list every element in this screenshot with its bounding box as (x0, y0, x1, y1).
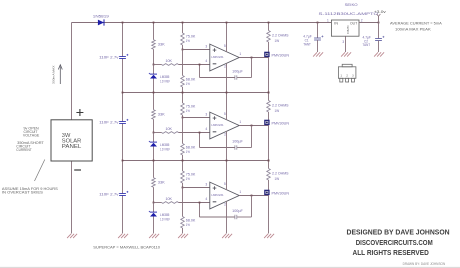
label GND (rotated) (346, 25, 350, 35)
pin 3 label U1 (205, 44, 207, 48)
node divider midpoint (182, 187, 184, 189)
resistor R33-1 33K (152, 40, 156, 50)
resistor R75-2 75.0K 1% (181, 103, 185, 115)
label 110F 2.7v (C5) (99, 192, 119, 196)
label 2.2 OHMS 1W (stage 1) (272, 34, 289, 43)
svg-text:VOLTAGE: VOLTAGE (23, 134, 40, 138)
svg-text:S-1112B30UC-AMPTO: S-1112B30UC-AMPTO (319, 12, 379, 16)
svg-text:33K: 33K (158, 42, 166, 46)
footer DESIGNED BY DAVE JOHNSON (347, 230, 450, 237)
wire 75K to +node (182, 183, 184, 188)
node mosfet column rail 1 (268, 92, 270, 94)
svg-text:1%: 1% (186, 177, 190, 181)
node 33K/10K/LM385 junction (153, 202, 155, 204)
wire 33K to node (153, 119, 155, 132)
svg-text:GND: GND (346, 25, 350, 35)
wire feedback up (199, 203, 201, 218)
wire 2.2ohm to mosfet (268, 112, 270, 126)
wire op-amp output (239, 195, 268, 197)
svg-text:100mA MAX PEAK: 100mA MAX PEAK (395, 28, 432, 32)
pin 5 label U1 (224, 44, 226, 48)
resistor R10-1 10K (162, 64, 179, 66)
svg-text:100µF: 100µF (232, 70, 243, 74)
node divider midpoint (182, 117, 184, 119)
svg-text:2: 2 (361, 18, 363, 22)
op-amp U1 LMP2231 triangle (210, 44, 239, 71)
node +3.0v tap (378, 22, 380, 24)
resistor R75-1 75.0K 1% (181, 33, 185, 45)
wire top supply rail (72, 22, 332, 24)
svg-text:TANT: TANT (363, 43, 371, 47)
svg-text:300mA MAX: 300mA MAX (51, 66, 55, 85)
wire +node to 68K (182, 118, 184, 144)
wire mosfet source down (268, 58, 270, 93)
svg-text:75.0K: 75.0K (186, 105, 196, 109)
svg-text:SUPERCAP = MAXWELL BCAP0110: SUPERCAP = MAXWELL BCAP0110 (93, 246, 160, 250)
svg-text:IN OVERCAST SKIES: IN OVERCAST SKIES (2, 191, 44, 195)
node output feedback tap (251, 195, 253, 197)
ground supercap rail (118, 234, 128, 238)
node feedback to -input (199, 202, 201, 204)
pin 3 label U2 (205, 112, 207, 116)
wire 75K to +node (182, 115, 184, 118)
resistor R22-3 2.2 OHMS 1W (267, 169, 271, 181)
wire feedback down (251, 126, 253, 148)
wire 68K bottom (182, 155, 184, 161)
wire node to LM385 (153, 203, 155, 213)
wire 2.2ohm to mosfet (268, 180, 270, 196)
svg-text:5: 5 (224, 182, 226, 186)
solar panel - terminal mark (74, 169, 81, 171)
op-amp U3 LMP2231 triangle (210, 182, 239, 209)
wire +node to 68K (182, 188, 184, 217)
wire 2.2ohm to mosfet (268, 42, 270, 58)
pin 2 label U3 (224, 203, 226, 207)
label 75.0K 1% (stage 3) (186, 173, 196, 182)
annotation average current (390, 21, 443, 31)
wire 10K to -input (179, 132, 210, 134)
footer DRAWN BY DAVE JOHNSON (403, 262, 446, 266)
pin 3 label VR1 (342, 40, 344, 44)
svg-text:2: 2 (224, 203, 226, 207)
label 75.0K 1% (stage 1) (186, 35, 196, 44)
svg-text:LM385: LM385 (160, 75, 169, 79)
svg-text:10K: 10K (166, 197, 173, 201)
label LM385 1.2V REF (stage 2) (160, 143, 170, 152)
svg-text:4: 4 (205, 197, 207, 201)
diode U1 LM385 1.2V REF (149, 73, 157, 79)
wire 2.2ohm top (268, 93, 270, 101)
ground op-amp U3 pin2 (222, 234, 232, 238)
footer DISCOVERCIRCUITS.COM (356, 240, 433, 247)
wire C1 to ground (317, 40, 319, 52)
svg-text:10K: 10K (166, 127, 173, 131)
pin 5 label U2 (224, 112, 226, 116)
svg-text:DISCOVERCIRCUITS.COM: DISCOVERCIRCUITS.COM (356, 240, 433, 247)
wire 33K R2a top (153, 93, 155, 110)
wire node to LM385 (153, 65, 155, 75)
diode U2 LM385 1.2V REF (149, 141, 157, 147)
junction dots on mid rail 2 (122, 160, 270, 162)
voltage regulator VR1 box (331, 20, 359, 36)
wire VR1 output (359, 22, 379, 24)
svg-text:110F 2.7v: 110F 2.7v (99, 192, 119, 196)
label 10K (stage 1) (166, 59, 173, 63)
svg-text:1W: 1W (275, 177, 280, 181)
footer ALL RIGHTS RESERVED (353, 250, 429, 257)
svg-text:3: 3 (205, 44, 207, 48)
wire C1 lead (317, 23, 319, 39)
label 300mA MAX (rotated) (51, 66, 55, 85)
svg-text:PANEL: PANEL (62, 144, 82, 150)
svg-text:4: 4 (205, 59, 207, 63)
wire mosfet source down (268, 196, 270, 234)
svg-text:3: 3 (352, 74, 354, 78)
label 2.2 OHMS 1W (stage 2) (272, 104, 289, 113)
solar panel label 3W SOLAR PANEL (62, 133, 82, 150)
wire 2.2ohm top (268, 161, 270, 169)
svg-text:OUT: OUT (350, 21, 357, 25)
wire 75K top (182, 93, 184, 104)
wire LM385 to lower rail (153, 79, 155, 93)
node feedback to -input (199, 64, 201, 66)
wire op-amp +input (183, 49, 210, 51)
capacitor C10-2 100µF (235, 145, 237, 149)
label S-1112B30UC-AMPTO (319, 12, 379, 16)
resistor R68-3 68.0K 1% (181, 217, 185, 229)
svg-text:68.0K: 68.0K (186, 219, 196, 223)
label 10K (stage 3) (166, 197, 173, 201)
capacitor C2 4.7uF TANT (375, 36, 384, 41)
svg-text:LMP2231: LMP2231 (211, 55, 223, 59)
resistor R68-1 68.0K 1% (181, 76, 185, 88)
wire op-amp pin2 V- (226, 131, 228, 161)
label LMP2231 (U2) (211, 123, 223, 127)
wire 33K to node (153, 187, 155, 202)
bottom edge shade (0, 266, 460, 268)
svg-text:DESIGNED BY DAVE JOHNSON: DESIGNED BY DAVE JOHNSON (347, 230, 450, 237)
wire op-amp pin5 V+ (226, 93, 228, 121)
wire 33K R1a top (153, 23, 155, 40)
annotation 350mA short circuit current (16, 141, 44, 152)
solar panel + terminal mark (76, 109, 83, 116)
wire feedback up (199, 65, 201, 78)
transistor Q2 PMV30UN (264, 120, 269, 125)
svg-text:PMV30UN: PMV30UN (272, 121, 290, 125)
wire op-amp +input (183, 117, 210, 119)
resistor R10-2 10K (162, 132, 179, 134)
op-amp U3 - mark (213, 201, 217, 203)
svg-text:LM385: LM385 (160, 213, 169, 217)
junction dots on mid rail 1 (122, 92, 270, 94)
svg-text:3: 3 (342, 40, 344, 44)
node feedback to -input (199, 132, 201, 134)
svg-text:10K: 10K (166, 59, 173, 63)
svg-text:2: 2 (224, 65, 226, 69)
wire +3.0v terminal lead (378, 16, 380, 23)
wire LM385 node to 10K (154, 64, 162, 66)
wire 33K to node (153, 49, 155, 64)
supercap C3 110F 2.7v (119, 54, 128, 59)
annotation pointer line (35, 160, 45, 182)
op-amp U2 - mark (213, 131, 217, 133)
wire feedback down (251, 196, 253, 218)
diode U3 LM385 1.2V REF (149, 211, 157, 217)
wire 10K to -input (179, 64, 210, 66)
node mosfet column rail 2 (268, 160, 270, 162)
resistor R10-3 10K (162, 202, 179, 204)
wire mid rail 2 (123, 160, 269, 162)
svg-text:2.2 OHMS: 2.2 OHMS (272, 104, 289, 108)
pin 4 label U3 (205, 197, 207, 201)
svg-text:5: 5 (224, 112, 226, 116)
transistor Q3 PMV30UN (264, 190, 269, 195)
wire LM385 node to 10K (154, 202, 162, 204)
diode D1 1N5819 (98, 19, 104, 25)
label 68.0K 1% (stage 2) (186, 146, 196, 155)
pin 5 label U3 (224, 182, 226, 186)
svg-text:PMV30UN: PMV30UN (272, 53, 290, 57)
label 33K (stage 1) (158, 42, 166, 46)
svg-text:CURRENT: CURRENT (16, 148, 31, 152)
label PMV30UN (Q3) (272, 191, 290, 195)
pin 1 label U1 (239, 52, 241, 56)
resistor R33-3 33K (152, 178, 156, 188)
svg-text:1W: 1W (275, 39, 280, 43)
svg-text:1%: 1% (186, 109, 190, 113)
wire 75K top (182, 161, 184, 172)
wire 33K R3a top (153, 161, 155, 178)
wire mid rail 1 (123, 92, 269, 94)
svg-text:LMP2231: LMP2231 (211, 193, 223, 197)
wire op-amp output (239, 57, 268, 59)
wire node to LM385 (153, 133, 155, 143)
wire C2 to ground (378, 41, 380, 53)
wire feedback up (199, 133, 201, 148)
wire VR1 gnd pin (345, 36, 347, 52)
svg-text:100µF: 100µF (232, 140, 243, 144)
capacitor C1 4.7uF TANT (314, 35, 323, 40)
pin 2 label U2 (224, 133, 226, 137)
svg-text:2: 2 (224, 133, 226, 137)
ground mosfet Q3 source (264, 234, 274, 238)
wire op-amp pin2 V- (226, 201, 228, 234)
label SEIKO (345, 3, 358, 7)
package drawing SOT-89 (338, 64, 356, 82)
solar panel PV1 box (51, 120, 92, 161)
wire op-amp output (239, 125, 268, 127)
svg-text:ALL RIGHTS RESERVED: ALL RIGHTS RESERVED (353, 250, 429, 257)
wire solar panel + lead (71, 23, 73, 120)
label 100µF (stage 2) (232, 140, 243, 144)
pin 1 label VR1 (327, 18, 329, 22)
svg-text:1W: 1W (275, 109, 280, 113)
current arrow 300mA MAX (58, 65, 62, 84)
label 2.2 OHMS 1W (stage 3) (272, 172, 289, 181)
wire op-amp pin2 V- (226, 63, 228, 93)
svg-text:2.2 OHMS: 2.2 OHMS (272, 172, 289, 176)
svg-text:3: 3 (205, 182, 207, 186)
op-amp U1 + mark (213, 48, 217, 52)
wire solar panel - lead (71, 161, 73, 234)
pin 3 label U3 (205, 182, 207, 186)
label 110F 2.7v (C3) (99, 55, 119, 59)
label 110F 2.7v (C4) (99, 120, 119, 124)
label 75.0K 1% (stage 2) (186, 105, 196, 114)
node divider midpoint (182, 49, 184, 51)
wire LM385 node to 10K (154, 132, 162, 134)
node 33K/10K/LM385 junction (153, 132, 155, 134)
wire supercap rail (122, 23, 124, 234)
svg-text:1: 1 (239, 190, 241, 194)
svg-text:110F 2.7v: 110F 2.7v (99, 120, 119, 124)
ground LM385 rail (149, 234, 159, 238)
svg-text:75.0K: 75.0K (186, 173, 196, 177)
wire feedback bottom left (200, 216, 235, 218)
svg-text:1%: 1% (186, 223, 190, 227)
svg-text:33K: 33K (158, 112, 166, 116)
wire LM385 to lower rail (153, 147, 155, 161)
label LMP2231 (U3) (211, 193, 223, 197)
wire C2 lead (378, 23, 380, 39)
ground divider rail (178, 234, 188, 238)
wire mosfet source down (268, 126, 270, 161)
svg-text:AVERAGE CURRENT = 5mA: AVERAGE CURRENT = 5mA (390, 21, 443, 25)
svg-text:PMV30UN: PMV30UN (272, 191, 290, 195)
label LMP2231 (U1) (211, 55, 223, 59)
label 4.7uF C1 TANT (303, 34, 311, 46)
svg-text:33K: 33K (158, 180, 166, 184)
svg-text:1%: 1% (186, 150, 190, 154)
svg-text:1: 1 (327, 18, 329, 22)
svg-text:68.0K: 68.0K (186, 146, 196, 150)
ground VR1 (341, 52, 351, 56)
wire 68K bottom (182, 228, 184, 234)
svg-text:100µF: 100µF (232, 209, 243, 213)
svg-text:2.2 OHMS: 2.2 OHMS (272, 34, 289, 38)
svg-text:1.2V REF: 1.2V REF (160, 148, 170, 152)
svg-text:TANT: TANT (303, 42, 311, 46)
supercap C5 110F 2.7v (119, 191, 128, 196)
svg-text:SEIKO: SEIKO (345, 3, 358, 7)
pin 1 label U2 (239, 120, 241, 124)
label PMV30UN (Q2) (272, 121, 290, 125)
svg-text:75.0K: 75.0K (186, 35, 196, 39)
wire +node to 68K (182, 50, 184, 76)
wire op-amp +input (183, 187, 210, 189)
wire 68K bottom (182, 87, 184, 93)
label 4.7uF C2 TANT (363, 35, 371, 47)
label LM385 1.2V REF (stage 1) (160, 75, 170, 84)
wire feedback bottom left (200, 147, 235, 149)
terminal +3.0v tick (377, 14, 381, 16)
label PMV30UN (Q1) (272, 53, 290, 57)
op-amp U3 + mark (213, 186, 217, 190)
capacitor C10-3 100µF (235, 215, 237, 219)
junction dot C1 on rail (317, 22, 319, 24)
transistor Q1 PMV30UN (264, 52, 269, 57)
label 100µF (stage 1) (232, 70, 243, 74)
label +3.0v (374, 10, 386, 14)
node output feedback tap (251, 57, 253, 59)
wire 10K to -input (179, 202, 210, 204)
ground C1 (313, 52, 323, 56)
node output feedback tap (251, 125, 253, 127)
resistor R22-1 2.2 OHMS 1W (267, 31, 271, 43)
svg-text:1: 1 (340, 74, 342, 78)
package pin numbers 1 2 3 (340, 74, 354, 78)
resistor R22-2 2.2 OHMS 1W (267, 101, 271, 113)
svg-text:5: 5 (224, 44, 226, 48)
op-amp U2 + mark (213, 116, 217, 120)
wire op-amp pin5 V+ (226, 23, 228, 53)
resistor R75-3 75.0K 1% (181, 171, 185, 183)
svg-text:68.0K: 68.0K (186, 78, 196, 82)
svg-text:1%: 1% (186, 39, 190, 43)
pin 2 label U1 (224, 65, 226, 69)
wire feedback down (251, 58, 253, 78)
svg-text:1: 1 (239, 120, 241, 124)
svg-text:1.2V REF: 1.2V REF (160, 218, 170, 222)
label 33K (stage 3) (158, 180, 166, 184)
pin 2 label VR1 (361, 18, 363, 22)
svg-text:110F 2.7v: 110F 2.7v (99, 55, 119, 59)
label OUT (350, 21, 357, 25)
annotation 9v open circuit voltage (23, 127, 40, 138)
pin 4 label U1 (205, 59, 207, 63)
label 100µF (stage 3) (232, 209, 243, 213)
wire feedback bottom right (237, 77, 252, 79)
label 68.0K 1% (stage 3) (186, 219, 196, 228)
svg-text:2: 2 (346, 74, 348, 78)
op-amp U1 - mark (213, 63, 217, 65)
wire 2.2ohm top (268, 23, 270, 31)
wire 75K top (182, 23, 184, 34)
wire feedback bottom right (237, 216, 252, 218)
ground solar panel negative (67, 234, 77, 238)
pin 4 label U2 (205, 127, 207, 131)
label LM385 1.2V REF (stage 3) (160, 213, 170, 222)
supercap C4 110F 2.7v (119, 119, 128, 124)
wire op-amp pin5 V+ (226, 161, 228, 191)
label 1N5819 (93, 14, 109, 18)
capacitor C10-1 100µF (235, 75, 237, 79)
svg-text:LM385: LM385 (160, 143, 169, 147)
wire feedback bottom right (237, 147, 252, 149)
svg-text:LMP2231: LMP2231 (211, 123, 223, 127)
wire LM385 to lower rail (153, 217, 155, 234)
svg-text:DRAWN BY: DAVE JOHNSON: DRAWN BY: DAVE JOHNSON (403, 262, 446, 266)
svg-text:1%: 1% (186, 82, 190, 86)
annotation assume 15mA for 9 hours (2, 187, 59, 195)
wire 75K to +node (182, 45, 184, 50)
node 33K/10K/LM385 junction (153, 64, 155, 66)
pin 1 label U3 (239, 190, 241, 194)
resistor R68-2 68.0K 1% (181, 144, 185, 156)
svg-text:1.2V REF: 1.2V REF (160, 80, 170, 84)
svg-text:+3.0v: +3.0v (374, 10, 386, 14)
svg-text:4: 4 (205, 127, 207, 131)
ground C2 (374, 52, 384, 56)
label IN (334, 21, 339, 25)
label 33K (stage 2) (158, 112, 166, 116)
label 10K (stage 2) (166, 127, 173, 131)
svg-text:3: 3 (205, 112, 207, 116)
svg-text:1N5819: 1N5819 (93, 14, 109, 18)
note SUPERCAP = MAXWELL BCAP0110 (93, 246, 160, 250)
resistor R33-2 33K (152, 110, 156, 120)
junction dots on top rail (122, 22, 270, 24)
